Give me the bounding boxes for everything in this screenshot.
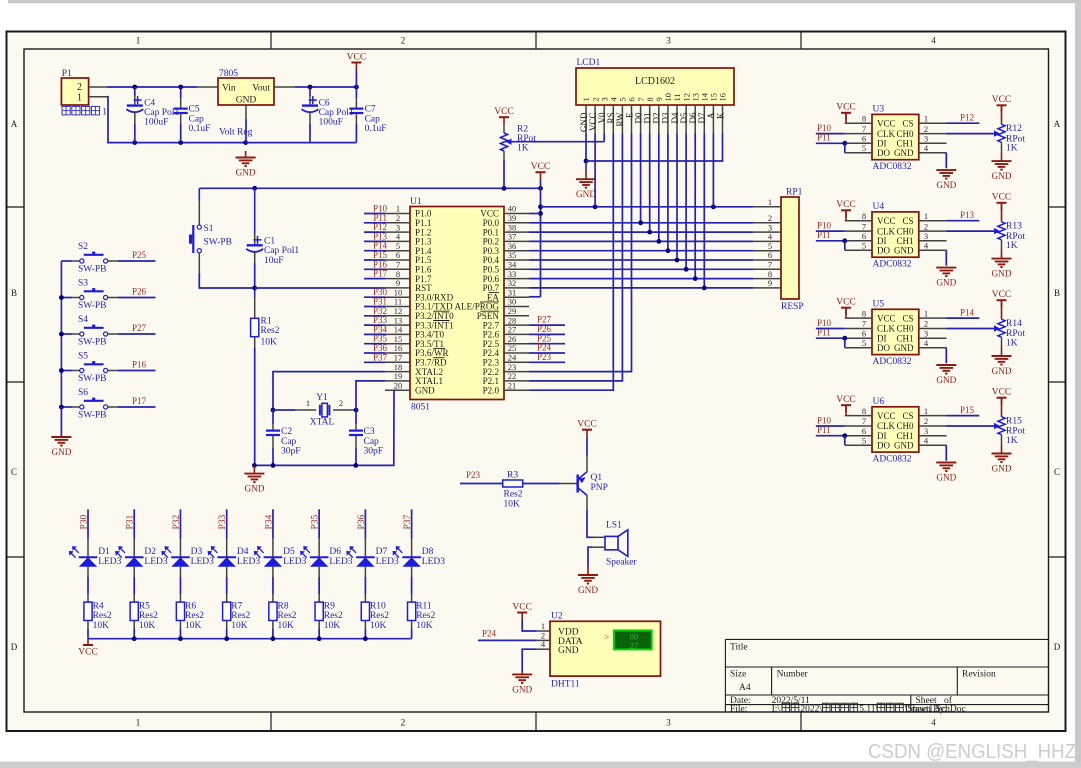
svg-text:VCC: VCC <box>877 313 896 323</box>
svg-text:P2.0: P2.0 <box>483 385 500 395</box>
svg-text:D6: D6 <box>329 547 341 557</box>
S3 pin left <box>72 297 80 299</box>
svg-text:2: 2 <box>77 82 82 93</box>
svg-text:10K: 10K <box>324 621 341 631</box>
wire P0.0 bus <box>529 222 641 224</box>
wire GND pin U3 <box>945 153 947 169</box>
LCD pin 1 <box>585 105 587 134</box>
LCD pin 10 <box>667 105 669 134</box>
U1 pin 13 <box>385 324 410 326</box>
DHT11 green display <box>614 630 652 650</box>
wire D3 to R6 <box>179 577 181 594</box>
U6 pin 2 <box>919 425 947 427</box>
resistor R5 <box>130 602 138 620</box>
wire D7 <box>703 134 705 288</box>
wire net P23 <box>529 361 565 363</box>
wire GND pin U6 <box>945 445 947 461</box>
svg-text:6: 6 <box>862 328 866 338</box>
svg-text:P17: P17 <box>132 396 147 406</box>
RP1 pin 3 <box>753 231 781 233</box>
svg-text:Res2: Res2 <box>185 611 204 621</box>
wire VCC to VDD <box>522 620 537 632</box>
R14 bottom stem <box>1001 347 1003 356</box>
R13 top stem <box>1001 203 1003 222</box>
svg-text:Cap Pol1: Cap Pol1 <box>264 246 299 256</box>
junction <box>317 636 322 641</box>
U1 pin 33 <box>504 278 529 280</box>
svg-text:3: 3 <box>666 36 671 46</box>
power VCC for U3 <box>836 103 856 120</box>
U1 pin 4 <box>385 240 410 242</box>
svg-text:2: 2 <box>401 718 406 728</box>
svg-text:1: 1 <box>136 718 141 728</box>
U1 pin 5 <box>385 250 410 252</box>
U1 pin 1 <box>385 213 410 215</box>
P1 pin 2 <box>89 86 107 88</box>
R13 wiper arrow <box>994 228 1000 234</box>
wire net P10 U4 <box>816 230 845 232</box>
wire C7 to rail <box>355 124 357 143</box>
U6 pin 6 <box>845 435 872 437</box>
svg-text:P27: P27 <box>132 323 147 333</box>
svg-text:C: C <box>11 467 17 477</box>
junction <box>132 85 137 90</box>
svg-text:1K: 1K <box>1006 241 1018 251</box>
window chrome strip right <box>1075 0 1081 768</box>
resistor R1 top wire <box>254 288 256 297</box>
wire R1 to ground rail <box>254 348 256 465</box>
wire <box>355 448 357 465</box>
svg-text:3: 3 <box>924 328 928 338</box>
svg-text:LED3: LED3 <box>237 557 260 567</box>
svg-text:CSDN @ENGLISH_HHZ: CSDN @ENGLISH_HHZ <box>868 741 1076 763</box>
svg-text:5: 5 <box>862 338 866 348</box>
U3 pin 4 <box>919 152 947 154</box>
U4 pin 5 <box>845 249 872 251</box>
U2 pin 2 <box>537 639 550 641</box>
U1 pin 35 <box>504 259 529 261</box>
svg-text:S4: S4 <box>78 315 88 325</box>
R5 pin bottom <box>133 621 135 629</box>
U1 pin 2 <box>385 222 410 224</box>
svg-text:1: 1 <box>306 398 310 408</box>
D3 pin bottom <box>179 567 181 577</box>
resistor R9 <box>315 602 323 620</box>
wire LCD GND <box>585 134 587 162</box>
U1 pin 16 <box>385 352 410 354</box>
svg-text:D4: D4 <box>237 547 249 557</box>
overbar RD <box>433 357 444 359</box>
wire <box>245 119 247 143</box>
wire to C6 <box>309 87 311 96</box>
svg-text:P11: P11 <box>817 328 831 338</box>
U5 pin 8 <box>845 317 872 319</box>
wire to C3 <box>355 410 357 424</box>
switch S3 <box>80 288 108 300</box>
wire RS to P2.0 <box>529 134 613 391</box>
svg-text:CS: CS <box>902 411 913 421</box>
U6 pin 8 <box>845 415 872 417</box>
U4 pin 8 <box>845 220 872 222</box>
svg-text:2022\: 2022\ <box>800 705 822 715</box>
svg-text:VCC: VCC <box>992 193 1012 203</box>
wire VCC to RP1 common <box>541 206 596 208</box>
svg-text:2: 2 <box>924 319 928 329</box>
junction <box>638 220 643 225</box>
file path CJK 气体检测 <box>822 703 857 712</box>
svg-text:GND: GND <box>992 269 1012 279</box>
wire R4 to rail <box>87 629 89 639</box>
wire C6 to rail <box>309 124 311 143</box>
svg-text:DI: DI <box>877 139 887 149</box>
resistor pack RP1 <box>781 197 799 299</box>
wire LCD K to GND <box>586 134 723 162</box>
power VCC for R2 <box>494 107 514 124</box>
RP1 pin 7 <box>753 268 781 270</box>
U1 pin 15 <box>385 343 410 345</box>
wire net P11 <box>364 222 385 224</box>
svg-text:CLK: CLK <box>877 421 896 431</box>
wire net P35 <box>364 343 385 345</box>
svg-text:A: A <box>11 119 18 129</box>
wire <box>504 187 541 189</box>
wire VCC stem U3 <box>845 113 847 123</box>
svg-text:R7: R7 <box>231 602 242 612</box>
svg-text:U2: U2 <box>551 612 563 622</box>
junction <box>354 85 359 90</box>
wire net P27 <box>529 324 565 326</box>
svg-text:S6: S6 <box>78 388 88 398</box>
svg-text:6: 6 <box>862 426 866 436</box>
crystal Y1 <box>320 403 330 417</box>
junction <box>271 636 276 641</box>
R9 pin bottom <box>318 621 320 629</box>
svg-text:C5: C5 <box>189 104 200 114</box>
wire rail to S3 <box>61 297 72 299</box>
wire LCD VCC <box>594 134 596 207</box>
wire to C4 <box>134 87 136 96</box>
svg-text:3: 3 <box>924 231 928 241</box>
ground under R14 <box>992 356 1012 376</box>
svg-text:B: B <box>1054 288 1060 298</box>
svg-text:SW-PB: SW-PB <box>78 265 107 275</box>
R4 pin top <box>87 594 89 602</box>
7805 pin Vout <box>274 86 295 88</box>
wire D4 <box>676 134 678 261</box>
svg-text:D7: D7 <box>376 547 388 557</box>
U1 pin 24 <box>504 361 529 363</box>
junction <box>538 204 543 209</box>
svg-text:Y1: Y1 <box>316 393 328 403</box>
LCD pin 2 <box>594 105 596 134</box>
resistor R11 <box>408 602 416 620</box>
svg-text:VCC: VCC <box>836 395 856 405</box>
svg-text:VCC: VCC <box>836 200 856 210</box>
ground under 7805 <box>236 151 256 178</box>
svg-text:P16: P16 <box>132 360 147 370</box>
svg-text:Size: Size <box>730 670 746 680</box>
svg-text:SW-PB: SW-PB <box>204 238 233 248</box>
junction <box>538 211 543 216</box>
wire <box>310 86 356 88</box>
wire net P37 <box>364 361 385 363</box>
wire <box>540 207 542 214</box>
wire ground rail <box>254 390 394 465</box>
wire R2 wiper to LCD V0 <box>512 141 605 143</box>
svg-text:1: 1 <box>102 108 107 118</box>
svg-text:CS: CS <box>902 313 913 323</box>
P1 pin 1 <box>89 96 107 98</box>
U1 pin 10 <box>385 296 410 298</box>
svg-text:VCC: VCC <box>992 95 1012 105</box>
svg-text:R12: R12 <box>1006 124 1022 134</box>
svg-text:S5: S5 <box>78 352 88 362</box>
D5 pin bottom <box>272 567 274 577</box>
svg-text:P17: P17 <box>373 269 388 279</box>
wire <box>181 142 246 144</box>
D5 pin top <box>272 539 274 558</box>
RP1 pin 6 <box>753 259 781 261</box>
window chrome strip bottom <box>0 762 1081 768</box>
svg-text:1K: 1K <box>1006 338 1018 348</box>
R15 bottom pin <box>1001 435 1003 445</box>
capacitor C7 top pin <box>355 98 357 109</box>
S6 pin left <box>72 406 80 408</box>
potentiometer R14 <box>998 319 1005 337</box>
resistor R6 <box>176 602 184 620</box>
wire CH0 to R14 wiper <box>947 328 996 330</box>
wire Q1 to speaker <box>587 510 594 537</box>
svg-text:RESP: RESP <box>781 302 804 312</box>
U1 pin 23 <box>504 371 529 373</box>
svg-text:3: 3 <box>666 718 671 728</box>
wire R9 to rail <box>318 629 320 639</box>
LCD pin 7 <box>640 105 642 134</box>
potentiometer R15 <box>998 417 1005 435</box>
svg-text:Title: Title <box>730 643 748 653</box>
svg-text:VCC: VCC <box>494 107 514 117</box>
U1 pin 27 <box>504 333 529 335</box>
wire <box>668 250 753 252</box>
svg-text:C6: C6 <box>319 99 330 109</box>
wire D6 to R9 <box>318 577 320 594</box>
svg-text:I:\: I:\ <box>772 705 781 715</box>
U1 pin 30 <box>504 306 529 308</box>
wire RW to P2.1 <box>529 134 622 381</box>
ground under switches <box>51 437 71 457</box>
U1 pin 9 <box>385 287 410 289</box>
R7 pin top <box>226 594 228 602</box>
svg-text:ADC0832: ADC0832 <box>873 259 912 269</box>
svg-text:R4: R4 <box>93 602 104 612</box>
wire net P34 to D5 <box>272 509 274 539</box>
power VCC for U1 <box>531 162 551 179</box>
switch S4 <box>80 325 108 337</box>
svg-text:SW-PB: SW-PB <box>78 374 107 384</box>
svg-text:R13: R13 <box>1006 222 1022 232</box>
svg-text:0.1uF: 0.1uF <box>189 124 211 134</box>
zone tick top <box>270 32 272 50</box>
svg-text:LED3: LED3 <box>422 557 445 567</box>
LED D8 <box>393 546 421 567</box>
svg-text:DO: DO <box>877 148 890 158</box>
IC U5 ADC0832 <box>872 309 919 354</box>
wire net P16 <box>364 268 385 270</box>
power VCC for U6 <box>836 395 856 412</box>
R2 wiper arrow <box>506 139 512 145</box>
wire net P36 <box>364 352 385 354</box>
power VCC top <box>347 52 367 69</box>
junction <box>363 636 368 641</box>
svg-text:PNP: PNP <box>591 483 608 493</box>
zone tick left <box>7 206 25 208</box>
S5 pin left <box>72 370 80 372</box>
svg-text:Revision: Revision <box>962 670 996 680</box>
svg-text:K: K <box>715 112 725 119</box>
potentiometer R12 <box>998 124 1005 142</box>
overbar PROG <box>480 301 499 303</box>
LED rail <box>88 638 412 640</box>
ground under R1 <box>244 465 264 493</box>
svg-text:GND: GND <box>894 440 914 450</box>
R12 top stem <box>1001 105 1003 124</box>
svg-text:DO: DO <box>877 246 890 256</box>
svg-text:10uF: 10uF <box>264 256 284 266</box>
wire GND pin <box>522 649 537 671</box>
svg-text:3: 3 <box>924 426 928 436</box>
D6 pin top <box>318 539 320 558</box>
svg-text:VCC: VCC <box>78 648 98 658</box>
wire CS to P15 <box>947 415 980 417</box>
resistor R1 <box>251 318 259 336</box>
svg-text:R8: R8 <box>278 602 289 612</box>
LED D2 <box>115 546 143 567</box>
junction <box>252 186 257 191</box>
U1 pin 38 <box>504 231 529 233</box>
ground under speaker <box>578 567 598 596</box>
file path CJK 原理图 <box>877 703 903 712</box>
svg-text:LED3: LED3 <box>98 557 121 567</box>
junction <box>538 186 543 191</box>
svg-text:CH0: CH0 <box>896 129 914 139</box>
wire net P10 <box>364 213 385 215</box>
U1 pin 32 <box>504 287 529 289</box>
ground under R13 <box>992 259 1012 279</box>
svg-text:GND: GND <box>51 447 71 457</box>
svg-text:10K: 10K <box>504 499 521 509</box>
svg-text:VCC: VCC <box>577 420 597 430</box>
svg-text:CS: CS <box>902 216 913 226</box>
svg-text:Res2: Res2 <box>139 611 158 621</box>
wire D1 to R4 <box>87 577 89 594</box>
U1 pin 12 <box>385 315 410 317</box>
svg-text:27: 27 <box>630 640 639 650</box>
zone tick right <box>1049 206 1067 208</box>
wire D5 to R8 <box>272 577 274 594</box>
svg-text:1: 1 <box>924 113 928 123</box>
R13 bottom stem <box>1001 250 1003 259</box>
svg-text:C1: C1 <box>264 237 275 247</box>
svg-text:CH1: CH1 <box>896 139 913 149</box>
potentiometer R2 bottom pin <box>503 151 505 160</box>
svg-text:P14: P14 <box>960 307 975 317</box>
window chrome strip top <box>8 0 1081 3</box>
svg-text:GND: GND <box>558 646 579 656</box>
svg-text:Res2: Res2 <box>370 611 389 621</box>
wire S3 to net P26 <box>118 297 156 299</box>
svg-text:5: 5 <box>862 241 866 251</box>
svg-text:D5: D5 <box>283 547 295 557</box>
svg-text:SW-PB: SW-PB <box>78 338 107 348</box>
S4 pin right <box>108 333 118 335</box>
svg-text:16: 16 <box>718 93 728 102</box>
capacitor C5 bottom pin <box>180 113 182 124</box>
svg-text:D8: D8 <box>422 547 434 557</box>
wire net P25 <box>529 343 565 345</box>
svg-text:Res2: Res2 <box>416 611 435 621</box>
switch S1 pin top <box>198 201 200 225</box>
svg-text:LED3: LED3 <box>329 557 352 567</box>
wire CH0 to R15 wiper <box>947 425 996 427</box>
power VCC for U5 <box>836 298 856 315</box>
wire C5 to rail <box>180 124 182 143</box>
power VCC for U4 <box>836 200 856 217</box>
switch S2 <box>80 252 108 264</box>
svg-text:20: 20 <box>394 380 403 390</box>
capacitor C2 top pin <box>272 424 274 431</box>
svg-text:8: 8 <box>862 211 866 221</box>
R14 top stem <box>1001 300 1003 319</box>
svg-text:R10: R10 <box>370 602 386 612</box>
svg-text:10K: 10K <box>231 621 248 631</box>
R8 pin top <box>272 594 274 602</box>
svg-text:DO: DO <box>877 440 890 450</box>
LCD pin 5 <box>621 105 623 134</box>
ground under U6 <box>936 463 956 483</box>
S2 pin left <box>72 260 80 262</box>
junction RST node <box>252 286 257 291</box>
svg-text:GND: GND <box>894 246 914 256</box>
capacitor C1 top pin <box>254 234 256 245</box>
wire DI-DO tie U5 <box>844 338 846 348</box>
svg-text:Number: Number <box>777 670 809 680</box>
svg-text:8: 8 <box>862 113 866 123</box>
svg-text:C3: C3 <box>364 427 375 437</box>
power VCC for R14 <box>992 290 1012 307</box>
LS1 pin 2 <box>592 546 605 548</box>
wire <box>295 86 310 88</box>
svg-text:21: 21 <box>508 380 517 390</box>
wire D7 to R10 <box>364 577 366 594</box>
junction <box>59 295 64 300</box>
power VCC for R15 <box>992 388 1012 405</box>
svg-text:SW-PB: SW-PB <box>78 411 107 421</box>
junction <box>693 276 698 281</box>
svg-text:2: 2 <box>924 124 928 134</box>
wire S4 to net P27 <box>118 333 156 335</box>
capacitor C1 top pin stem <box>254 188 256 234</box>
junction P11 U5 <box>842 336 847 341</box>
U5 pin 5 <box>845 347 872 349</box>
capacitor C2 bottom pin <box>272 435 274 448</box>
junction <box>178 85 183 90</box>
svg-text:VCC: VCC <box>877 216 896 226</box>
wire R7 to rail <box>226 629 228 639</box>
LCD pin 14 <box>703 105 705 134</box>
svg-text:P37: P37 <box>373 352 388 362</box>
capacitor C5 top pin <box>180 98 182 109</box>
U1 pin 6 <box>385 259 410 261</box>
